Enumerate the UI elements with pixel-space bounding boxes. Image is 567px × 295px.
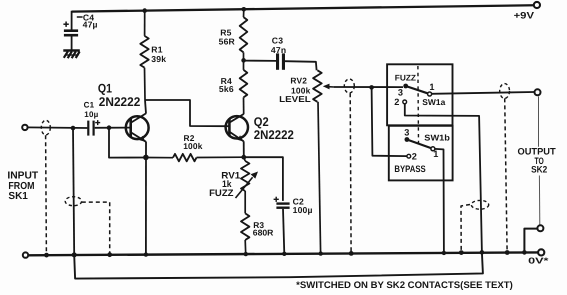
label C2 polarity + — [274, 197, 279, 202]
junction dot R5/R4/C3 node — [241, 58, 246, 63]
svg-text:Q1: Q1 — [98, 82, 112, 96]
svg-text:RV2: RV2 — [290, 76, 307, 86]
switch SW1b contact 2 — [407, 154, 411, 158]
junction dot internal shield / rail — [107, 252, 112, 257]
svg-text:0V*: 0V* — [528, 255, 549, 265]
wire Q2 emitter down — [243, 141, 245, 157]
svg-text:5k6: 5k6 — [219, 84, 234, 94]
resistor R3 — [241, 213, 249, 254]
junction dot Q2 emitter node — [241, 155, 246, 160]
wire C3 to RV2 top — [285, 61, 317, 70]
wire top +9V supply rail — [72, 5, 534, 11]
svg-text:2: 2 — [394, 97, 399, 107]
svg-text:680R: 680R — [253, 228, 274, 238]
wire C4 bottom lead — [71, 37, 73, 51]
wire SW1b contact 1 down to rail — [435, 149, 444, 253]
capacitor C3 — [276, 53, 285, 69]
switch SW1a contact 2 — [403, 100, 407, 104]
ground chassis symbol below C4 — [63, 51, 80, 59]
junction dot Q1 base / feedback node — [107, 125, 112, 130]
svg-text:BYPASS: BYPASS — [394, 163, 425, 174]
junction dot RV2 / rail — [319, 251, 323, 255]
junction dot output shield / rail — [505, 250, 510, 255]
switch SW1a contact 1 — [428, 92, 432, 96]
terminal input jack sleeve — [23, 252, 28, 257]
potentiometer RV1 wiper arrow — [236, 172, 259, 199]
svg-text:100µ: 100µ — [293, 205, 313, 215]
svg-text:47n: 47n — [271, 45, 286, 55]
shield screen ellipse on level wire — [344, 79, 354, 93]
shield screen ellipse on internal input cable — [65, 197, 81, 206]
junction dot SK2 sleeve / rail — [522, 250, 527, 255]
potentiometer RV1 — [241, 157, 249, 213]
label C1 polarity + — [95, 120, 100, 125]
wire feedback from Q1 base node — [109, 128, 146, 158]
junction dot footswitch shield / rail — [459, 250, 464, 255]
svg-text:100k: 100k — [183, 141, 203, 151]
junction dot top rail / R1 — [142, 8, 147, 13]
switch SW1a lever — [406, 86, 428, 93]
wire internal shield drain (dashed) — [82, 202, 110, 254]
potentiometer RV2 wiper arrow — [323, 84, 334, 90]
svg-text:SK1: SK1 — [8, 191, 28, 202]
terminal +9V — [534, 2, 540, 8]
wire footswitch shield drain (dashed) — [461, 205, 470, 252]
switch section box SW1a — [387, 64, 452, 125]
junction dot ground link / rail — [480, 250, 485, 255]
wire output cable lower (thin) — [538, 176, 540, 226]
resistor R2 — [146, 154, 244, 161]
svg-text:C3: C3 — [272, 36, 283, 46]
resistor R4 — [240, 60, 248, 114]
switch SW1b lever — [407, 140, 431, 149]
capacitor C4 — [64, 17, 83, 37]
wire bypass branch down to SW1b contact 2 — [372, 87, 407, 156]
shield screen ellipse on footswitch ground link — [471, 200, 488, 209]
svg-text:1: 1 — [429, 82, 434, 92]
wire level shield drain (dashed) — [349, 93, 352, 252]
wire secondary ground return loop — [74, 252, 483, 278]
junction dot shield drain / rail — [44, 253, 49, 258]
switch section box SW1b — [389, 126, 453, 181]
svg-text:SW1b: SW1b — [424, 133, 450, 143]
svg-text:+9V: +9V — [514, 9, 535, 20]
svg-text:1: 1 — [433, 149, 438, 159]
wire input node down to 0V rail — [73, 128, 74, 255]
wire shield drain to ground rail (dashed) — [45, 135, 48, 254]
wire Q1 emitter down to rail — [145, 142, 147, 255]
junction dot C2 / rail — [282, 252, 286, 256]
transistor Q2 2N2222 — [226, 114, 248, 142]
svg-text:47µ: 47µ — [83, 20, 98, 30]
capacitor C1 — [87, 121, 95, 136]
wire RV2 wiper to SW1a — [334, 86, 403, 88]
junction dot feedback / Q1 emitter line — [143, 155, 149, 161]
wire output cable upper (thin) — [538, 96, 540, 146]
wire C2 bottom to rail — [283, 209, 284, 254]
transistor Q1 2N2222 — [126, 113, 149, 141]
wire input to C1 — [28, 126, 88, 129]
svg-text:LEVEL: LEVEL — [279, 94, 311, 104]
terminal 0V — [538, 249, 544, 255]
junction dot top rail / R5 — [242, 7, 247, 12]
junction dot Q1 emitter / rail — [144, 252, 148, 256]
junction dot wiper wire / bypass branch — [369, 85, 374, 90]
wire C4 top lead — [71, 11, 73, 30]
svg-text:SW1a: SW1a — [422, 97, 445, 107]
wire SW1a contact 2 to ground link — [405, 104, 482, 252]
svg-text:C1: C1 — [84, 101, 95, 110]
label C4 polarity + — [63, 22, 68, 27]
resistor R5 — [240, 9, 248, 60]
svg-text:Q2: Q2 — [254, 115, 269, 129]
shield screen ellipse on output lead — [500, 84, 510, 99]
wire C3 left lead — [244, 60, 277, 62]
terminal output jack tip — [535, 89, 541, 95]
terminal input jack tip — [22, 125, 27, 130]
wire Q1 collector up — [145, 100, 146, 114]
svg-text:SK2: SK2 — [531, 163, 547, 174]
ganged switch link (dashed) — [417, 66, 420, 143]
wire output shield drain (dashed) — [505, 98, 507, 251]
svg-text:2N2222: 2N2222 — [254, 128, 294, 142]
svg-text:39k: 39k — [151, 54, 166, 64]
svg-text:2N2222: 2N2222 — [99, 95, 141, 109]
switch SW1b pole dot — [405, 137, 410, 142]
terminal SK2 sleeve jack — [537, 225, 543, 231]
wire Q1 collector to Q2 base — [145, 100, 229, 126]
capacitor C2 — [276, 202, 289, 209]
junction dot level shield / rail — [349, 251, 354, 256]
switch SW1a pole dot — [403, 84, 408, 89]
potentiometer RV2 track — [313, 70, 322, 253]
svg-text:56R: 56R — [219, 37, 236, 47]
resistor R1 — [140, 11, 148, 100]
svg-text:10µ: 10µ — [84, 110, 98, 119]
wire C1 to Q1 base — [95, 127, 130, 129]
svg-text:FUZZ: FUZZ — [395, 74, 416, 83]
wire Q2 emitter to C2 — [244, 157, 283, 201]
svg-text:3: 3 — [404, 128, 409, 138]
junction dot R3 / rail — [244, 252, 248, 256]
svg-text:*SWITCHED ON BY SK2 CONTACTS(S: *SWITCHED ON BY SK2 CONTACTS(SEE TEXT) — [296, 280, 513, 291]
svg-text:2: 2 — [412, 152, 417, 162]
junction dot input node — [71, 126, 76, 131]
wire 0V ground rail — [28, 252, 538, 255]
shield screen ellipse on input lead — [41, 120, 50, 135]
wire SK2 sleeve to 0V rail — [524, 229, 537, 252]
junction dot input-down / rail — [72, 252, 77, 257]
junction dot SW1b-1 / rail — [442, 251, 446, 255]
svg-text:FUZZ: FUZZ — [209, 187, 234, 198]
switch SW1b contact 1 — [431, 147, 435, 151]
wire SW1a contact 1 to output — [432, 92, 534, 94]
